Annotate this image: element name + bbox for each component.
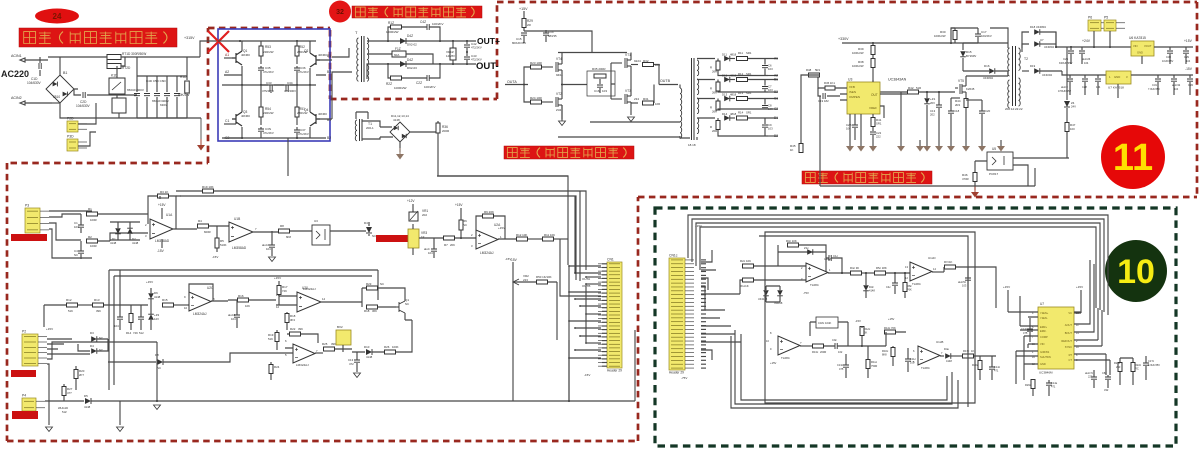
svg-text:R: R [710, 106, 712, 110]
capacitor C2Z 100/2KV [427, 75, 429, 81]
svg-text:NC: NC [380, 282, 384, 286]
capacitor C2B 106 [852, 125, 858, 127]
svg-text:103: 103 [768, 67, 773, 71]
svg-text:U1B: U1B [234, 217, 240, 221]
svg-text:100R/2W: 100R/2W [394, 86, 407, 90]
svg-text:C28: C28 [1082, 85, 1087, 89]
wire U7 gnd stub [1117, 84, 1119, 98]
svg-text:3K3: 3K3 [290, 318, 295, 322]
svg-text:-15V: -15V [584, 373, 590, 377]
svg-text:COMP: COMP [1040, 335, 1048, 339]
svg-text:14: 14 [322, 297, 326, 301]
ground arrows row [849, 140, 851, 146]
transistor VT4 9Z24 [542, 62, 562, 72]
resistor R1D 80K/3W [186, 57, 188, 118]
svg-text:10: 10 [1117, 253, 1155, 291]
svg-text:R3 1K: R3 1K [160, 190, 168, 194]
svg-text:60A: 60A [394, 53, 399, 57]
svg-text:R24 10R: R24 10R [530, 96, 543, 100]
svg-text:471: 471 [994, 369, 999, 373]
svg-text:+15V: +15V [770, 361, 777, 365]
svg-text:TL084: TL084 [912, 282, 921, 286]
svg-text:10K: 10K [245, 304, 250, 308]
yellow trimmer BX2 [336, 330, 351, 345]
svg-text:100K/2W: 100K/2W [852, 64, 864, 68]
svg-text:8K8: 8K8 [882, 353, 887, 357]
svg-text:100: 100 [1070, 127, 1075, 131]
svg-text:47NUF/35V: 47NUF/35V [1058, 90, 1071, 93]
IGBT Q3 40N60 [232, 112, 242, 126]
op-amp U2C LM324AJ [189, 292, 211, 311]
svg-text:26R: 26R [712, 70, 717, 74]
capacitor C20 104 [979, 111, 985, 113]
svg-text:VT5: VT5 [958, 79, 964, 83]
svg-text:C20: C20 [985, 109, 991, 113]
svg-text:Z34: Z34 [556, 108, 562, 112]
svg-text:4148: 4148 [946, 359, 952, 363]
svg-text:R12: R12 [738, 72, 744, 76]
op-amp U1cA TL084 [806, 263, 828, 282]
resistor R5 510K [215, 238, 219, 248]
svg-text:UF4804: UF4804 [1044, 45, 1054, 49]
capacitor C37 471/2KV [294, 130, 300, 132]
svg-text:U1A: U1A [166, 213, 173, 217]
resistor R41 SR1 [871, 118, 875, 127]
svg-text:P4: P4 [22, 394, 26, 398]
svg-text:R11c: R11c [871, 360, 878, 364]
resistor R3 1K [148, 196, 157, 224]
capacitor C18 201 [948, 111, 954, 113]
svg-text:R13: R13 [94, 298, 100, 302]
wire OUT+ rail [367, 40, 476, 42]
svg-text:P3D: P3D [67, 135, 74, 139]
svg-text:200R: 200R [442, 129, 450, 133]
svg-text:R1: R1 [88, 207, 92, 211]
svg-text:GND: GND [1114, 75, 1120, 79]
svg-text:683/35: 683/35 [548, 34, 557, 38]
op-amp output wire [173, 228, 197, 230]
svg-text:C34: C34 [287, 81, 293, 85]
svg-text:R23: R23 [366, 282, 372, 286]
IGBT Q1 40N60 [232, 51, 242, 65]
capacitor C2D [83, 92, 85, 98]
svg-text:104/630V: 104/630V [76, 104, 91, 108]
svg-text:U6 KA7815: U6 KA7815 [1129, 36, 1146, 40]
svg-text:104: 104 [1174, 88, 1179, 91]
svg-text:R42: R42 [908, 86, 914, 90]
label OUTB [654, 65, 678, 104]
svg-text:C1: C1 [225, 119, 229, 123]
capacitor C7D [176, 76, 178, 118]
svg-text:39K: 39K [331, 342, 336, 346]
svg-text:aluC26: aluC26 [1082, 57, 1091, 61]
svg-text:100/2KV: 100/2KV [424, 85, 436, 89]
svg-text:RT2D: RT2D [122, 66, 131, 70]
svg-text:12V: 12V [154, 317, 159, 321]
svg-text:+15V: +15V [1003, 285, 1010, 289]
svg-text:5K: 5K [864, 331, 867, 335]
svg-text:R14c 70K: R14c 70K [884, 326, 896, 330]
svg-text:R31: R31 [643, 97, 649, 101]
svg-text:R8: R8 [280, 224, 284, 228]
svg-text:LM324AJ: LM324AJ [193, 312, 207, 316]
svg-text:162: 162 [838, 350, 843, 354]
svg-text:R13c: R13c [812, 350, 819, 354]
svg-text:51K: 51K [68, 309, 73, 313]
svg-text:LM324AJ: LM324AJ [480, 251, 494, 255]
svg-text:74K: 74K [282, 289, 287, 293]
op-amp U2D LM324AJ [293, 344, 315, 363]
resistor R3c 10K [788, 243, 799, 247]
resistor R12b 10K [517, 237, 528, 241]
svg-text:D92-03: D92-03 [407, 66, 417, 70]
resistor R32 10R [631, 64, 638, 66]
transistor Q1 NC [396, 301, 405, 313]
svg-text:D16: D16 [984, 64, 990, 68]
svg-text:24: 24 [53, 12, 62, 21]
svg-text:9224: 9224 [634, 59, 641, 63]
svg-text:P2: P2 [22, 330, 26, 334]
svg-text:100R/2W: 100R/2W [386, 30, 399, 34]
svg-text:R2Z: R2Z [386, 82, 392, 86]
svg-text:512: 512 [139, 331, 144, 335]
connector P6 [1088, 20, 1101, 31]
svg-text:aluC7c: aluC7c [1085, 371, 1094, 375]
zener D7 12V [148, 314, 154, 320]
svg-text:R2: R2 [88, 235, 92, 239]
resistor R18b 36K [367, 305, 378, 309]
svg-text:R3c 10K: R3c 10K [786, 239, 797, 243]
svg-text:CN1c: CN1c [669, 254, 678, 258]
wire CN1c stubs [701, 250, 740, 310]
capacitor C3N 471/2KV [258, 129, 264, 131]
trimmer VR1 202 [412, 204, 414, 212]
node B2 [768, 91, 778, 93]
svg-text:471/2KV: 471/2KV [263, 70, 274, 74]
svg-text:U1cB: U1cB [936, 340, 943, 344]
svg-text:PC817: PC817 [989, 172, 999, 176]
svg-text:D4Z: D4Z [407, 34, 413, 38]
svg-text:ILIM/SS: ILIM/SS [1040, 350, 1049, 354]
svg-text:222: 222 [876, 135, 881, 139]
resistor R12c 5K [860, 327, 864, 336]
resistor R19b 51K [275, 333, 279, 342]
svg-text:ISEN: ISEN [849, 90, 856, 94]
op-amp U2A LM324AJ [476, 230, 498, 249]
capacitor C6 103 [764, 59, 766, 65]
svg-text:F1Z: F1Z [395, 47, 401, 51]
wire CN1c extra stubs [701, 259, 706, 261]
svg-text:R: R [710, 125, 712, 129]
svg-text:D13: D13 [722, 93, 728, 97]
svg-text:LM358AD: LM358AD [232, 246, 247, 250]
svg-text:3.3UF/35V: 3.3UF/35V [1148, 364, 1160, 367]
trimmer VR3 1K yellow [408, 229, 419, 248]
resistor R19 10K [176, 190, 202, 192]
capacitor C18c 104K [816, 317, 838, 328]
capacitor C4c 103 [892, 283, 898, 285]
svg-text:BX2: BX2 [337, 325, 343, 329]
svg-text:R7: R7 [444, 243, 448, 247]
op-amp U20 LM324AJ [297, 292, 321, 312]
svg-text:A1: A1 [774, 57, 778, 61]
wire +15 rail to drive [524, 31, 592, 53]
optocoupler U3 [312, 225, 330, 245]
connector P4 [22, 398, 36, 411]
label -15V [1131, 74, 1193, 76]
svg-text:NC: NC [463, 223, 467, 227]
resistor R14c 10K [885, 330, 896, 334]
transistor VT3 234 [611, 94, 631, 104]
wire HV bus top [121, 56, 200, 58]
resistor R15 [163, 303, 174, 307]
capacitor C8c 332 [1105, 377, 1111, 379]
svg-text:LM324AJ: LM324AJ [303, 287, 316, 291]
wire opto loop [808, 75, 1069, 186]
svg-text:40N60: 40N60 [241, 114, 250, 118]
svg-text:22R/2W: 22R/2W [263, 50, 274, 54]
capacitor C7 103 [764, 80, 766, 86]
svg-text:R16: R16 [238, 294, 244, 298]
ground [974, 182, 976, 190]
svg-text:-15V: -15V [212, 255, 218, 259]
wire nested loops bottom [735, 330, 952, 404]
board outline: top-right main board dashed border [497, 1, 1197, 4]
transistor VT2 Z34 [542, 97, 562, 107]
svg-text:SR1: SR1 [746, 51, 752, 55]
svg-text:RT1D 300R/50W: RT1D 300R/50W [122, 52, 146, 56]
resistor R44 2R2 [964, 99, 968, 108]
ground [559, 121, 566, 126]
svg-text:SHUTDN: SHUTDN [1040, 355, 1051, 359]
svg-text:104: 104 [114, 324, 119, 328]
resistor R36 200R [410, 121, 438, 132]
resistor R2 100R [87, 239, 98, 243]
transformer T2 [1013, 46, 1016, 106]
wire +24V rail [1056, 32, 1131, 47]
marker ellipse 24 [35, 9, 79, 24]
svg-text:REFOUT: REFOUT [1061, 339, 1072, 343]
svg-text:ERR-: ERR- [1040, 329, 1046, 333]
svg-text:+15V: +15V [1076, 285, 1083, 289]
svg-text:D4e: D4e [944, 347, 949, 351]
svg-text:22R/2W: 22R/2W [263, 111, 274, 115]
svg-text:39K: 39K [96, 309, 101, 313]
wire U6 gnd stub [1141, 56, 1143, 64]
svg-text:51Z: 51Z [62, 410, 67, 414]
resistor R31 10R [631, 102, 638, 104]
svg-text:200R: 200R [820, 350, 826, 354]
svg-text:R15: R15 [162, 298, 168, 302]
svg-text:VIN: VIN [1040, 342, 1044, 346]
trimmer VR2 223 [512, 262, 514, 401]
svg-text:C18: C18 [954, 109, 960, 113]
svg-text:R19 10K: R19 10K [202, 185, 214, 189]
svg-text:103: 103 [962, 284, 967, 288]
svg-text:C31: C31 [1152, 83, 1157, 87]
fuse F1Z 60A [367, 53, 392, 55]
svg-text:10R: 10R [655, 102, 660, 106]
rectifier row D14 R14 [697, 117, 715, 119]
banner bottom-board power input [19, 28, 177, 47]
svg-text:R16c: R16c [882, 349, 889, 353]
capacitor aluC7c 222 [1091, 377, 1097, 379]
svg-text:223: 223 [523, 278, 528, 282]
svg-text:U5: U5 [992, 147, 996, 151]
svg-text:U7: U7 [1040, 38, 1044, 42]
svg-text:NC: NC [74, 253, 78, 257]
resistor R23 10R [524, 67, 530, 85]
resistor R8 6K8 [279, 229, 290, 233]
board outline: mid rectifier board dashed border [329, 30, 332, 99]
svg-text:B2: B2 [327, 136, 331, 140]
wire row3 vertical [156, 342, 158, 401]
svg-text:R45 1K1: R45 1K1 [824, 81, 835, 85]
svg-text:+330V: +330V [838, 37, 849, 41]
optocoupler U5 PC817 [987, 152, 1013, 170]
capacitor C15 800UF/35V [521, 33, 527, 35]
svg-text:SR1: SR1 [746, 91, 752, 95]
svg-text:C14c: C14c [994, 365, 1001, 369]
svg-text:104: 104 [266, 247, 271, 251]
svg-text:UC3846M: UC3846M [1039, 371, 1053, 375]
resistor RT2D [107, 64, 121, 69]
svg-text:103: 103 [74, 225, 79, 229]
svg-text:T2: T2 [1024, 57, 1028, 61]
capacitor C36 471/2KV [294, 68, 300, 70]
snubber wire primary [951, 28, 1008, 48]
svg-text:202: 202 [930, 113, 935, 117]
svg-text:R1Z: R1Z [388, 21, 394, 25]
svg-text:+15V: +15V [455, 203, 463, 207]
wire mid bus [222, 84, 316, 86]
svg-text:C4D C5D C6D: C4D C5D C6D [146, 79, 167, 83]
svg-text:R1c1K: R1c1K [740, 284, 749, 288]
wire AC input top [48, 56, 107, 58]
svg-text:U1cD: U1cD [928, 256, 936, 260]
bridge rectifier B1 [46, 75, 74, 103]
svg-text:6K8: 6K8 [286, 235, 291, 239]
svg-text:C16: C16 [594, 89, 600, 93]
svg-text:-15V: -15V [855, 319, 861, 323]
svg-text:+12V: +12V [407, 199, 415, 203]
svg-text:5R1: 5R1 [815, 68, 821, 72]
svg-text:AC220: AC220 [1, 69, 29, 79]
resistor R16c 8K8 [891, 348, 895, 357]
svg-text:P3: P3 [25, 204, 29, 208]
svg-text:4818: 4818 [730, 53, 737, 57]
svg-text:SR1: SR1 [746, 111, 752, 115]
svg-text:100K: 100K [392, 345, 399, 349]
svg-text:BOUT: BOUT [1065, 331, 1073, 335]
drive transformer windings [697, 60, 699, 76]
resistor R39 100K/2W [871, 46, 875, 55]
svg-text:4148: 4148 [154, 295, 161, 299]
transformer T1 200-1 [360, 119, 363, 141]
capacitor C1x 1UF/50V [1143, 363, 1149, 365]
resistor R22 39K [290, 332, 301, 336]
svg-text:R4: R4 [198, 219, 202, 223]
svg-text:103: 103 [602, 89, 607, 93]
svg-text:-75V: -75V [681, 376, 687, 380]
svg-text:UC3843AN: UC3843AN [888, 78, 907, 82]
svg-text:R: R [710, 66, 712, 70]
diode D3c 4148 [863, 285, 869, 291]
svg-text:NC: NC [405, 302, 409, 306]
capacitor C17c 475 [1027, 329, 1033, 331]
relay coil K1D box [112, 98, 126, 113]
red X mark [208, 31, 229, 52]
banner main-board inverter drive [504, 146, 634, 159]
svg-text:100K/2W: 100K/2W [852, 51, 864, 55]
resistor R11c 750R [866, 360, 870, 369]
resistor R29 2R [522, 19, 526, 28]
svg-text:R35 200R: R35 200R [592, 67, 606, 71]
svg-text:NC: NC [157, 366, 161, 370]
resistor R38 100K/2W [871, 59, 875, 68]
wire CN1 branch stubs [575, 191, 580, 281]
feedback wire U2C [189, 284, 228, 301]
svg-text:I SEN-: I SEN- [1040, 316, 1048, 320]
svg-text:U1cA: U1cA [824, 257, 831, 261]
svg-text:VC: VC [1068, 311, 1072, 315]
resistor R48 5R1 [809, 73, 820, 77]
regulator U6 KA7815 [1131, 41, 1154, 56]
svg-text:-15V: -15V [510, 258, 518, 262]
svg-text:472/2KV: 472/2KV [471, 46, 482, 50]
svg-text:140/8V: 140/8V [446, 54, 455, 58]
wire AC input bottom [52, 102, 60, 104]
svg-text:VT2: VT2 [556, 92, 562, 96]
capacitor C19 182 [823, 93, 825, 99]
svg-text:47?: 47? [67, 391, 72, 395]
svg-text:475: 475 [1023, 331, 1028, 335]
svg-text:CT: CT [1069, 358, 1073, 362]
svg-text:aluC32: aluC32 [1172, 83, 1181, 87]
svg-text:P6: P6 [1088, 16, 1092, 20]
svg-text:-15V: -15V [157, 249, 165, 253]
svg-text:C14e: C14e [1051, 381, 1058, 385]
svg-text:182: 182 [824, 99, 829, 103]
resistor R7c 1K [945, 265, 956, 269]
svg-text:K2645: K2645 [966, 87, 975, 91]
op-amp U1A LM358AD [150, 219, 173, 239]
svg-text:U3: U3 [314, 219, 318, 223]
wire P2 stubs [47, 339, 157, 380]
svg-text:OMPEN: OMPEN [849, 95, 860, 99]
svg-text:GND: GND [1137, 51, 1143, 55]
resistor R26c [1031, 380, 1035, 389]
svg-text:D4: D4 [90, 344, 94, 348]
svg-text:36K: 36K [372, 309, 377, 313]
svg-text:471/2KV: 471/2KV [298, 132, 309, 136]
op-amp U1cC TL084 [778, 336, 800, 355]
resistor R13c 200R [813, 344, 824, 348]
svg-text:2K?: 2K? [79, 373, 84, 377]
svg-text:24V: 24V [1071, 105, 1076, 109]
svg-text:100R: 100R [90, 218, 97, 222]
connector P2D [67, 121, 78, 132]
svg-text:R32: R32 [643, 59, 649, 63]
zener D15 BY299V [962, 43, 964, 50]
capacitor C14e 471 [1046, 383, 1052, 385]
resistor R25 39K [324, 347, 335, 351]
capacitor C31 [1157, 75, 1159, 78]
svg-text:TL084: TL084 [921, 366, 930, 370]
connector P3 [25, 208, 40, 233]
svg-text:243: 243 [1116, 365, 1121, 369]
zener Z1c [778, 251, 826, 253]
